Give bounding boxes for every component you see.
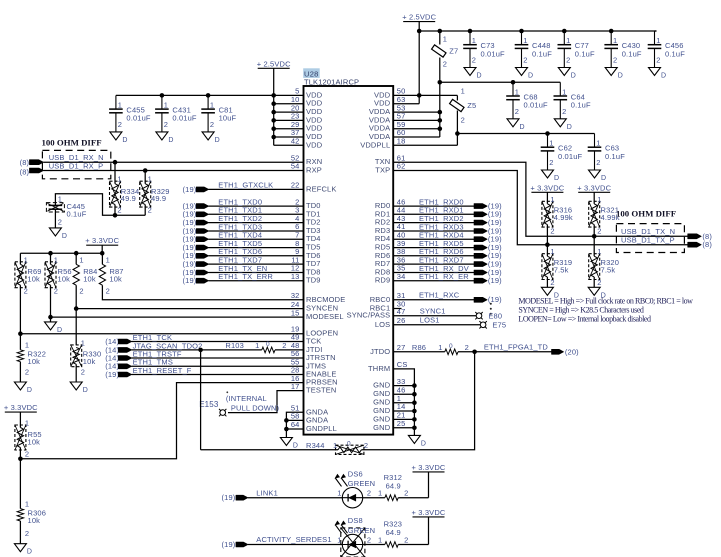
ferrite Z7	[432, 31, 459, 82]
svg-text:+ 3.3VDC: + 3.3VDC	[4, 403, 38, 412]
svg-text:2: 2	[148, 206, 152, 215]
svg-text:0.1uF: 0.1uF	[571, 101, 591, 110]
svg-text:1: 1	[597, 247, 601, 256]
node ETH1_TXD3 to pin 6 TD3	[183, 222, 321, 235]
svg-text:ETH1_RX_ER: ETH1_RX_ER	[419, 272, 469, 281]
svg-text:D: D	[528, 73, 533, 80]
svg-text:RD9: RD9	[375, 276, 390, 285]
wire second rail	[440, 81, 561, 83]
svg-text:22: 22	[291, 181, 300, 190]
power +3.3VDC LED2	[412, 508, 446, 545]
power +3.3VDC R55	[4, 403, 38, 427]
svg-text:D: D	[618, 73, 623, 80]
svg-text:(19): (19)	[183, 185, 197, 194]
svg-text:D: D	[661, 73, 666, 80]
resistor R316 4.99k	[542, 195, 573, 245]
junction dots rail	[48, 251, 104, 256]
resistor R322 10k	[17, 340, 46, 382]
svg-text:2: 2	[472, 56, 476, 65]
svg-text:(19): (19)	[488, 276, 502, 285]
svg-text:34: 34	[397, 272, 406, 281]
node ETH1_RXD1 pin 44 RD1	[375, 206, 502, 219]
svg-text:1: 1	[443, 35, 447, 44]
wire TESTEN to E153	[228, 391, 304, 413]
svg-text:2: 2	[566, 56, 570, 65]
svg-text:TXP: TXP	[375, 166, 390, 175]
svg-text:2: 2	[79, 286, 83, 295]
svg-text:0.1uF: 0.1uF	[575, 49, 595, 58]
svg-text:D: D	[520, 124, 525, 131]
dashed box 100 ohm diff left	[42, 150, 110, 178]
wire PRBSEN to R55 divider	[20, 383, 303, 459]
node LINK1 net	[222, 488, 343, 502]
power +3.3VDC R321	[577, 183, 611, 204]
svg-text:D: D	[601, 175, 606, 182]
node ETH1_TX_ERR to pin 13 TD9	[183, 272, 321, 285]
node THRM pin CS	[368, 360, 414, 386]
svg-text:1: 1	[79, 255, 83, 264]
svg-text:2: 2	[81, 367, 85, 376]
node ETH1_TXD6 to pin 9 TD6	[183, 247, 321, 260]
node ACTIVITY_SERDES1 net	[222, 535, 343, 549]
junction rail drop	[417, 29, 422, 34]
node pin 16 PRBSEN	[291, 374, 338, 387]
svg-text:+ 3.3VDC: + 3.3VDC	[412, 463, 446, 472]
IC U28 TLK1201AIRCP body	[303, 68, 393, 434]
resistor R84 10k	[73, 253, 97, 295]
svg-text:GREEN: GREEN	[348, 526, 375, 535]
svg-text:SYNC/PASS: SYNC/PASS	[347, 311, 391, 320]
capacitor C62	[541, 134, 583, 183]
svg-text:27: 27	[397, 343, 406, 352]
svg-text:54: 54	[291, 162, 300, 171]
svg-text:D: D	[215, 137, 220, 144]
ground below C445	[49, 228, 67, 240]
svg-text:MODESEL: MODESEL	[306, 312, 344, 321]
junction Z7 top	[438, 29, 443, 34]
svg-text:2: 2	[550, 278, 554, 287]
svg-text:0.01uF: 0.01uF	[172, 114, 197, 123]
svg-text:1: 1	[523, 36, 527, 45]
svg-text:2: 2	[461, 115, 465, 124]
svg-text:E153: E153	[199, 400, 219, 409]
resistor R69 10k	[15, 253, 42, 295]
svg-text:(8): (8)	[20, 167, 30, 176]
node ETH1_TRSTF net	[105, 349, 303, 362]
node TXN pin 61	[375, 153, 690, 236]
power +3.3VDC R316	[530, 183, 564, 204]
svg-text:2: 2	[364, 441, 368, 450]
ground below R322	[14, 382, 32, 394]
svg-text:10k: 10k	[28, 437, 41, 446]
svg-text:2: 2	[596, 158, 600, 167]
node pin 28 ENABLE	[291, 366, 337, 379]
node GND pin 1	[373, 394, 414, 407]
junction R321 to TXN	[592, 234, 597, 239]
node ETH1_RXD0 pin 46 RD0	[375, 197, 502, 210]
node pin 56 JTRSTN	[291, 349, 336, 362]
resistor R56 10k	[45, 253, 72, 295]
svg-text:D: D	[27, 387, 32, 394]
node ETH1_RXD4 pin 40 RD4	[375, 230, 502, 243]
svg-text:R344: R344	[306, 441, 325, 450]
svg-text:D: D	[567, 124, 572, 131]
node pin 64 GNDPLL	[291, 420, 337, 433]
svg-text:10uF: 10uF	[219, 114, 237, 123]
svg-text:10k: 10k	[83, 357, 96, 366]
svg-text:0: 0	[449, 343, 453, 350]
svg-text:2: 2	[404, 489, 408, 498]
svg-text:2: 2	[54, 286, 58, 295]
node JTDO pin 27 with resistor R86	[370, 343, 445, 356]
junction ETH1_FPGA1_TD branch	[472, 350, 477, 355]
node pin 49 TCK	[291, 333, 322, 346]
svg-text:D: D	[554, 175, 559, 182]
svg-text:2: 2	[404, 535, 408, 544]
svg-text:(19): (19)	[222, 493, 236, 502]
wire R56 to MODESEL	[50, 285, 52, 322]
svg-text:1: 1	[596, 139, 600, 148]
svg-text:SYNC1: SYNC1	[420, 307, 446, 316]
svg-text:ETH1_TX_ERR: ETH1_TX_ERR	[218, 272, 273, 281]
svg-text:DS8: DS8	[348, 516, 363, 525]
node MODESEL pin 15	[291, 308, 344, 321]
svg-text:ETH1_RXC: ETH1_RXC	[419, 291, 460, 300]
node E80	[475, 311, 502, 320]
junction C448	[519, 29, 524, 34]
node ETH1_RESET_F net	[105, 366, 303, 379]
svg-text:32: 32	[291, 291, 300, 300]
svg-text:VDD: VDD	[306, 140, 323, 149]
svg-text:2: 2	[613, 56, 617, 65]
node ETH1_TX_EN to pin 12 TD8	[183, 264, 321, 277]
svg-text:47: 47	[397, 307, 406, 316]
svg-text:(20): (20)	[565, 347, 579, 356]
svg-text:ETH1_GTXCLK: ETH1_GTXCLK	[218, 180, 273, 189]
resistor R103 0 ohm	[225, 341, 286, 353]
svg-text:TESTEN: TESTEN	[306, 386, 337, 395]
junction C73	[468, 29, 473, 34]
svg-text:13: 13	[291, 272, 300, 281]
svg-text:49.9: 49.9	[121, 194, 136, 203]
LED DS6 GREEN	[333, 469, 375, 508]
capacitor C456	[648, 31, 685, 80]
svg-text:+ 2.5VDC: + 2.5VDC	[257, 59, 291, 68]
svg-text:42: 42	[291, 137, 300, 146]
svg-text:64: 64	[291, 420, 300, 429]
svg-text:2: 2	[25, 367, 29, 376]
wire R55 to R306	[19, 459, 21, 509]
svg-text:ACTIVITY_SERDES1: ACTIVITY_SERDES1	[256, 535, 331, 544]
node ETH1_TXD2 to pin 4 TD2	[183, 214, 321, 227]
resistor R312 64.9	[363, 473, 429, 501]
svg-text:1: 1	[148, 175, 152, 184]
svg-text:1: 1	[106, 255, 110, 264]
svg-text:TD9: TD9	[306, 276, 321, 285]
node ETH1_RXD7 pin 36 RD7	[375, 255, 502, 268]
node GND pin 33	[373, 377, 414, 390]
resistor R334 49.9	[110, 160, 140, 215]
node E153 internal pull down	[199, 391, 279, 416]
svg-text:D: D	[477, 73, 482, 80]
svg-text:0.01uF: 0.01uF	[126, 114, 151, 123]
svg-text:D: D	[27, 549, 32, 556]
power +3.3VDC pullup bank	[85, 236, 119, 253]
wire VDD pin 37 stub	[274, 128, 323, 141]
svg-text:+ 2.5VDC: + 2.5VDC	[402, 13, 436, 22]
svg-text:D: D	[83, 387, 88, 394]
node ETH1_RXD6 pin 38 RD6	[375, 247, 502, 260]
svg-text:MODESEL = High => Full clock r: MODESEL = High => Full clock rate on RBC…	[518, 297, 693, 306]
wire R84 to SYNCEN	[75, 285, 77, 345]
svg-text:USB_D1_TX_P: USB_D1_TX_P	[621, 236, 675, 245]
junction node C81	[206, 93, 211, 98]
svg-text:2: 2	[24, 286, 28, 295]
ground below R56	[45, 322, 63, 334]
svg-text:2: 2	[210, 120, 214, 129]
node E75	[479, 321, 506, 330]
capacitor C73	[463, 31, 505, 80]
svg-text:10k: 10k	[109, 274, 122, 283]
svg-text:64.9: 64.9	[386, 528, 401, 537]
svg-text:E75: E75	[492, 321, 506, 330]
svg-text:2: 2	[25, 529, 29, 538]
wire top cap rail	[419, 30, 656, 32]
wire +2.5VDC right vertical	[418, 22, 420, 104]
node ETH1_TXD0 to pin 2 TD0	[183, 197, 321, 210]
svg-text:1: 1	[550, 247, 554, 256]
junction JTAG_SCAN_TDO2 branch	[198, 348, 203, 353]
power +2.5VDC left rail label	[257, 59, 291, 68]
svg-text:1: 1	[25, 418, 29, 427]
svg-text:E80: E80	[488, 311, 502, 320]
junction R69	[18, 331, 23, 336]
resistor R319 7.5k	[542, 245, 572, 288]
svg-text:CS: CS	[397, 360, 408, 369]
wire R87 to RBCMODE	[102, 285, 303, 300]
svg-text:10k: 10k	[83, 274, 96, 283]
svg-text:2: 2	[58, 217, 62, 226]
junction R56	[48, 315, 53, 320]
junction C62	[545, 131, 550, 136]
svg-text:0.1uF: 0.1uF	[622, 49, 642, 58]
svg-text:2: 2	[562, 107, 566, 116]
svg-text:SYNCEN = High => K28.5 Charact: SYNCEN = High => K28.5 Characters used	[518, 305, 644, 314]
svg-text:2: 2	[367, 489, 371, 498]
svg-text:2: 2	[118, 120, 122, 129]
svg-text:2: 2	[106, 286, 110, 295]
junction R316 to TXP	[545, 242, 550, 247]
svg-text:31: 31	[397, 291, 406, 300]
svg-text:18: 18	[397, 137, 406, 146]
svg-text:2: 2	[25, 449, 29, 458]
svg-text:GND: GND	[373, 423, 391, 432]
ground below R320	[588, 287, 606, 299]
junction R84	[74, 306, 79, 311]
wire VDD pin 20 stub	[274, 103, 323, 116]
svg-text:R103: R103	[225, 341, 244, 350]
svg-text:2: 2	[597, 278, 601, 287]
svg-text:(19): (19)	[488, 295, 502, 304]
junction GNDPLL 64	[284, 427, 289, 432]
capacitor C430	[604, 31, 641, 80]
node ETH1_RX_DV pin 35 RD8	[375, 264, 502, 277]
node GND pin 46	[373, 385, 414, 398]
svg-text:1: 1	[81, 338, 85, 347]
resistor R330 10k	[71, 338, 102, 382]
svg-text:1: 1	[566, 36, 570, 45]
svg-text:D: D	[62, 233, 67, 240]
wire VDDA vertical	[439, 82, 441, 137]
svg-text:49.9: 49.9	[151, 194, 166, 203]
svg-text:2: 2	[367, 535, 371, 544]
power +3.3VDC LED1	[412, 463, 446, 498]
node ETH1_RXD2 pin 43 RD2	[375, 214, 502, 227]
wire R344 to JTDO branch	[361, 352, 474, 450]
resistor R87 10k	[99, 253, 123, 295]
svg-text:0.01uF: 0.01uF	[524, 101, 549, 110]
wire VDD pin 42 stub	[274, 137, 323, 150]
node pin 50 VDD right	[374, 87, 419, 100]
svg-text:GREEN: GREEN	[348, 479, 375, 488]
ground below R319	[541, 287, 559, 299]
svg-text:0.1uF: 0.1uF	[665, 49, 685, 58]
svg-text:1: 1	[58, 194, 62, 203]
ground below R306	[14, 544, 32, 556]
wire GNDA bus	[286, 412, 303, 437]
LED DS8 GREEN not installed	[333, 516, 375, 557]
node JTAG_SCAN_TDO2 net	[105, 341, 303, 354]
svg-text:1: 1	[472, 36, 476, 45]
svg-text:1: 1	[613, 36, 617, 45]
wire VDD pin 10 stub	[274, 95, 323, 108]
svg-text:1: 1	[438, 343, 442, 352]
svg-text:ETH1_RESET_F: ETH1_RESET_F	[133, 366, 192, 375]
wire 3.3V rail	[20, 252, 102, 254]
junction R55 bottom	[18, 457, 23, 462]
svg-text:LOS1: LOS1	[420, 316, 440, 325]
resistor R329 49.9	[140, 168, 170, 215]
svg-text:2: 2	[550, 227, 554, 236]
node USB_D1_TX_P label	[621, 236, 712, 250]
svg-text:2: 2	[117, 206, 121, 215]
svg-text:1: 1	[378, 489, 382, 498]
svg-text:THRM: THRM	[368, 364, 390, 373]
node GND pin 21	[373, 411, 414, 424]
svg-text:LOOPEN= Low => Internal loopba: LOOPEN= Low => Internal loopback disable…	[518, 314, 651, 323]
node GND pin 14	[373, 402, 414, 415]
node RBCMODE pin 32	[291, 291, 346, 304]
svg-text:1: 1	[25, 340, 29, 349]
junction C430	[609, 29, 614, 34]
junction C77	[562, 29, 567, 34]
svg-text:7.5k: 7.5k	[601, 265, 616, 274]
ferrite Z5	[419, 86, 476, 145]
svg-text:1: 1	[549, 139, 553, 148]
junction dots on 2.5V vertical	[271, 93, 276, 139]
svg-text:1: 1	[333, 441, 337, 450]
svg-text:0.1uF: 0.1uF	[67, 209, 87, 218]
capacitor C64	[554, 82, 591, 131]
svg-text:0.1uF: 0.1uF	[605, 152, 625, 161]
svg-text:ETH1_FPGA1_TD: ETH1_FPGA1_TD	[484, 343, 548, 352]
junction C68	[511, 80, 516, 85]
wire R334/R329 common to C445	[55, 194, 145, 216]
wire VDD pin 5 stub	[295, 87, 323, 100]
svg-text:0: 0	[347, 440, 351, 447]
capacitor C455	[109, 95, 151, 143]
wire third rail	[457, 133, 594, 135]
capacitor C448	[515, 31, 552, 80]
resistor R306 10k	[17, 500, 46, 544]
svg-text:1: 1	[597, 195, 601, 204]
junction node C431	[160, 93, 165, 98]
svg-text:2: 2	[523, 56, 527, 65]
svg-text:1: 1	[117, 175, 121, 184]
node pin 57 VDDA right	[369, 112, 440, 125]
svg-text:1: 1	[25, 500, 29, 509]
node pin 17 TESTEN	[291, 382, 337, 395]
svg-text:0.01uF: 0.01uF	[481, 49, 506, 58]
wire cap bank rail	[116, 94, 304, 96]
svg-text:64.9: 64.9	[386, 481, 401, 490]
node pin 63 VDD right	[374, 95, 419, 108]
capacitor C68	[506, 82, 548, 131]
node pin 59 VDDA right	[369, 120, 440, 133]
node ETH1_RXD5 pin 39 RD5	[375, 239, 502, 252]
ground GND bus	[408, 435, 426, 447]
wire +2.5VDC left vertical	[273, 68, 275, 145]
svg-text:2: 2	[515, 107, 519, 116]
ground below R330	[70, 382, 88, 394]
svg-text:26: 26	[397, 316, 406, 325]
svg-text:0: 0	[266, 341, 270, 348]
svg-text:2: 2	[164, 120, 168, 129]
node GND pin 25	[373, 419, 414, 432]
svg-text:RBCMODE: RBCMODE	[306, 295, 345, 304]
dashed box 100 ohm diff right	[616, 224, 684, 253]
svg-text:1: 1	[461, 86, 465, 95]
svg-text:VDDPLL: VDDPLL	[360, 140, 390, 149]
svg-text:D: D	[168, 137, 173, 144]
node ETH1_RXC pin 31 RBC0	[370, 291, 502, 305]
svg-text:10k: 10k	[58, 274, 71, 283]
svg-text:4.99k: 4.99k	[554, 213, 573, 222]
node USB_D1_RX_N net	[20, 153, 323, 167]
svg-text:+ 3.3VDC: + 3.3VDC	[530, 183, 564, 192]
svg-text:D: D	[571, 73, 576, 80]
svg-text:2: 2	[465, 343, 469, 352]
svg-text:LINK1: LINK1	[256, 488, 278, 497]
wire R69 to LOOPEN	[19, 285, 21, 350]
svg-text:1: 1	[378, 535, 382, 544]
svg-text:100 OHM DIFF: 100 OHM DIFF	[616, 208, 676, 218]
svg-text:TLK1201AIRCP: TLK1201AIRCP	[304, 77, 359, 86]
svg-text:1: 1	[656, 36, 660, 45]
node pin 19 LOOPEN	[291, 325, 338, 338]
svg-text:1: 1	[562, 87, 566, 96]
svg-text:(8): (8)	[702, 240, 712, 249]
svg-text:10k: 10k	[28, 357, 41, 366]
svg-text:DS6: DS6	[348, 469, 363, 478]
node ETH1_FPGA1_TD net	[484, 343, 579, 357]
svg-text:D: D	[421, 440, 426, 447]
svg-text:1: 1	[515, 87, 519, 96]
svg-text:(INTERNAL: (INTERNAL	[226, 394, 267, 403]
wire VDD pin 29 stub	[274, 120, 323, 133]
node USB_D1_TX_N label	[621, 227, 712, 241]
resistor R320 7.5k	[589, 236, 619, 287]
